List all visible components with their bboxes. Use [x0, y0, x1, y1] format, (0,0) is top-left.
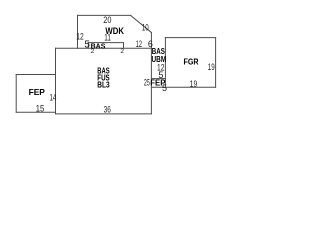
svg-text:11: 11	[104, 32, 111, 42]
wire: FEP porch left edge	[15, 75, 17, 113]
svg-text:36: 36	[104, 105, 111, 115]
wire: FEP porch bottom edge	[16, 111, 55, 113]
svg-text:FEP: FEP	[29, 87, 46, 97]
wire: FEP porch top edge	[16, 74, 55, 76]
wire: house left edge	[55, 48, 57, 114]
svg-text:2: 2	[91, 48, 95, 55]
wire: house top edge	[56, 47, 152, 49]
svg-text:15: 15	[36, 104, 44, 114]
wire: bump right edge	[123, 43, 125, 49]
svg-text:19: 19	[190, 79, 197, 89]
wire: right vertical (WDK right + house right + column left)	[150, 33, 152, 114]
wire: bump left edge	[87, 43, 89, 49]
wire: bottom edge of garage and column	[151, 86, 215, 88]
svg-text:12: 12	[76, 31, 83, 41]
wire: FGR garage right edge	[215, 38, 217, 88]
svg-text:FGR: FGR	[184, 57, 199, 67]
wire: house bottom edge	[56, 113, 152, 115]
svg-text:12: 12	[136, 39, 142, 49]
svg-text:14: 14	[50, 92, 57, 102]
svg-text:20: 20	[103, 15, 111, 25]
wire: FGR garage left edge / column right edge	[164, 38, 166, 88]
wire: WDK diagonal edge	[131, 15, 152, 32]
svg-text:2: 2	[120, 48, 124, 55]
svg-text:5: 5	[84, 40, 90, 51]
svg-text:10: 10	[142, 22, 149, 32]
svg-text:19: 19	[208, 62, 215, 72]
svg-text:5: 5	[162, 83, 167, 93]
wire: FGR garage top edge	[165, 37, 215, 39]
wire: bump top edge	[88, 42, 123, 44]
wire: WDK top edge	[78, 14, 131, 16]
svg-text:25: 25	[144, 77, 150, 87]
svg-text:BL3: BL3	[97, 81, 110, 90]
wire: small FEP top edge in column	[151, 78, 165, 80]
wire: WDK left edge	[77, 15, 79, 48]
